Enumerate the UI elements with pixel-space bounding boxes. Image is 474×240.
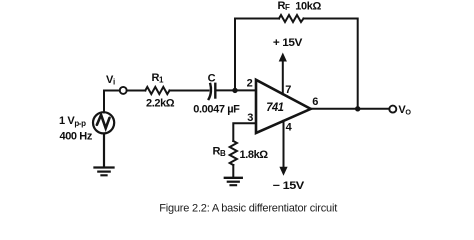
node Vo terminal (open circle) bbox=[389, 106, 396, 113]
wire pin4 to -15V arrow bbox=[283, 121, 285, 169]
ground (RB) bbox=[225, 177, 242, 179]
op-amp U1 741 triangle bbox=[256, 80, 311, 133]
svg-text:400 Hz: 400 Hz bbox=[60, 130, 93, 142]
wire capacitor to op-amp inverting input bbox=[217, 89, 256, 91]
svg-text:+ 15V: + 15V bbox=[273, 37, 303, 49]
source AC generator circle bbox=[93, 112, 114, 133]
svg-text:2.2kΩ: 2.2kΩ bbox=[146, 98, 175, 110]
resistor RB bbox=[230, 141, 237, 165]
svg-text:3: 3 bbox=[247, 112, 253, 124]
junction input node (pin2 / feedback / C) bbox=[232, 88, 237, 93]
wire R1 to capacitor bbox=[170, 90, 209, 92]
arrowhead -15V bbox=[279, 167, 287, 176]
wire input left segment (corner to Vi terminal) bbox=[104, 91, 120, 113]
resistor RF bbox=[279, 15, 304, 22]
svg-text:C: C bbox=[208, 73, 216, 85]
svg-text:7: 7 bbox=[285, 84, 291, 96]
junction output node (feedback / Vo) bbox=[355, 106, 360, 111]
wire source to ground bbox=[103, 134, 105, 167]
svg-text:Figure 2.2: A basic differenti: Figure 2.2: A basic differentiator circu… bbox=[159, 202, 337, 214]
source waveform zigzag bbox=[97, 115, 110, 128]
wire Vi to R1 bbox=[127, 90, 146, 92]
wire RB to ground bbox=[232, 165, 234, 177]
wire pin3 horizontal + vertical to RB bbox=[233, 123, 256, 141]
svg-text:6: 6 bbox=[312, 96, 318, 108]
arrowhead +15V bbox=[279, 53, 287, 62]
wire feedback top right + vertical down to output bbox=[304, 19, 358, 109]
svg-text:1.8kΩ: 1.8kΩ bbox=[240, 149, 269, 161]
capacitor C left plate (curved) bbox=[209, 84, 211, 99]
svg-text:10kΩ: 10kΩ bbox=[295, 0, 321, 12]
wire pin7 to +15V arrow bbox=[282, 60, 284, 95]
svg-text:741: 741 bbox=[266, 100, 284, 114]
node Vi terminal (open circle) bbox=[120, 87, 127, 94]
svg-text:− 15V: − 15V bbox=[273, 180, 305, 192]
wire feedback left vertical (node to top) bbox=[235, 19, 279, 91]
svg-text:2: 2 bbox=[247, 78, 253, 90]
wire output pin6 to Vo bbox=[311, 108, 390, 110]
svg-text:0.0047 µF: 0.0047 µF bbox=[193, 103, 240, 115]
resistor R1 bbox=[145, 87, 169, 94]
capacitor C right plate bbox=[214, 84, 216, 98]
ground (source) bbox=[95, 166, 114, 168]
